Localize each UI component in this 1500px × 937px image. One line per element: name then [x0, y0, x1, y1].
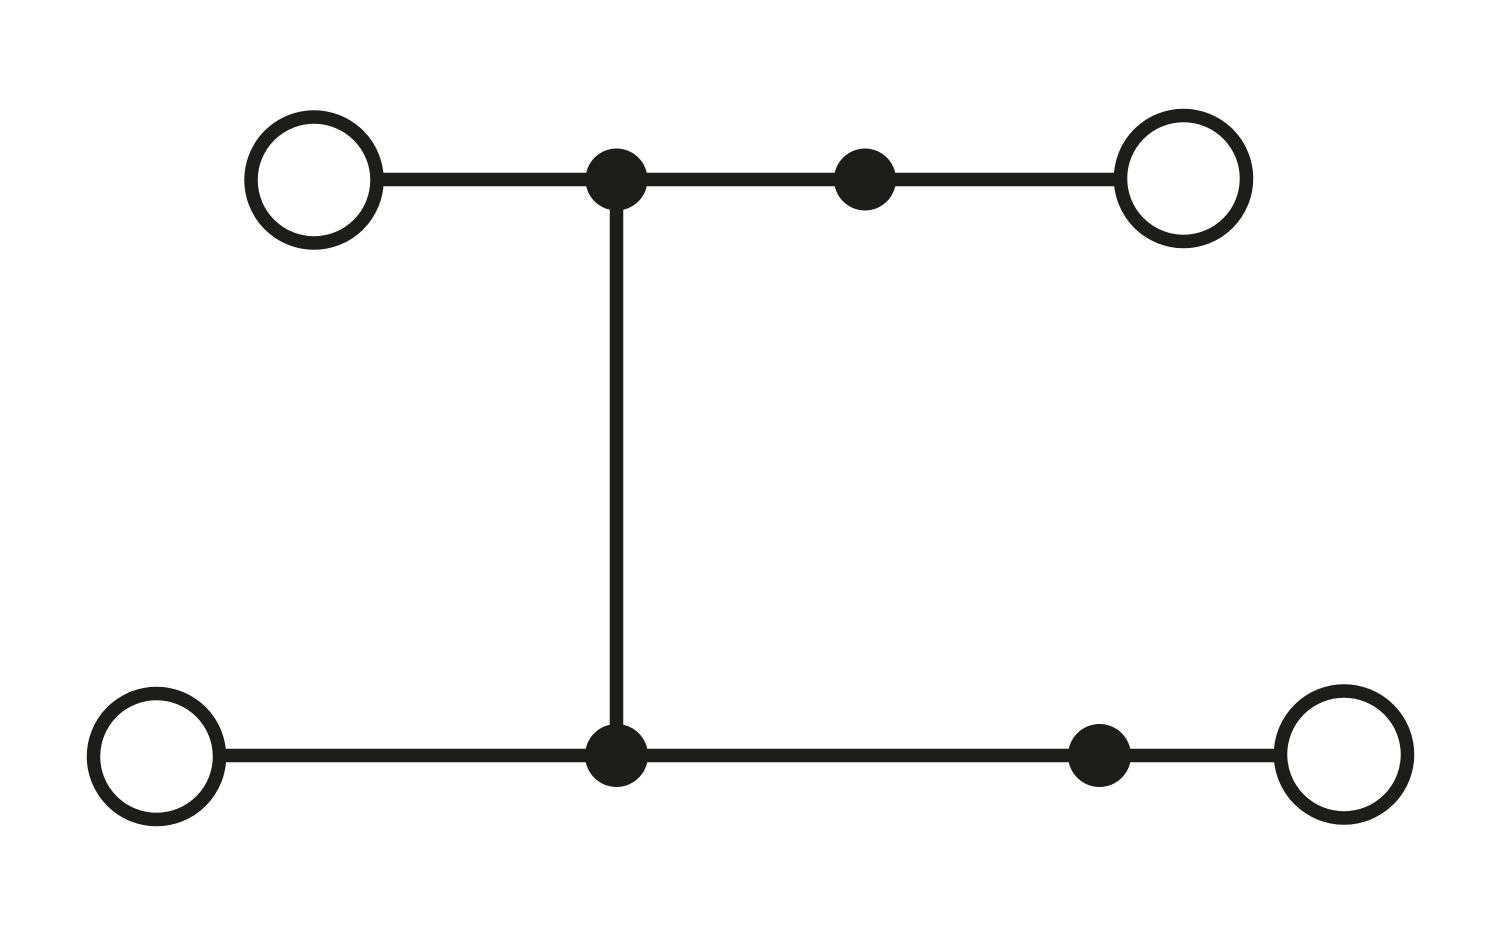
terminal 1 (top-left clamp circle) [251, 117, 377, 243]
junction node top-center (tee of bridge) [586, 149, 648, 211]
terminal 3 (bottom-left clamp circle) [94, 694, 220, 820]
terminal 2 (top-right clamp circle) [1121, 116, 1247, 242]
wire vertical bridge (top node to bottom node) [610, 180, 624, 756]
terminal 4 (bottom-right clamp circle) [1281, 691, 1408, 818]
wire bottom horizontal run (terminal 3 to terminal 4) [156, 749, 1344, 763]
junction dot bottom-right [1068, 724, 1131, 787]
junction node bottom-center (tee of bridge) [585, 724, 648, 787]
junction dot top-right [834, 149, 896, 211]
wire top horizontal run (terminal 1 to terminal 2) [314, 173, 1184, 187]
